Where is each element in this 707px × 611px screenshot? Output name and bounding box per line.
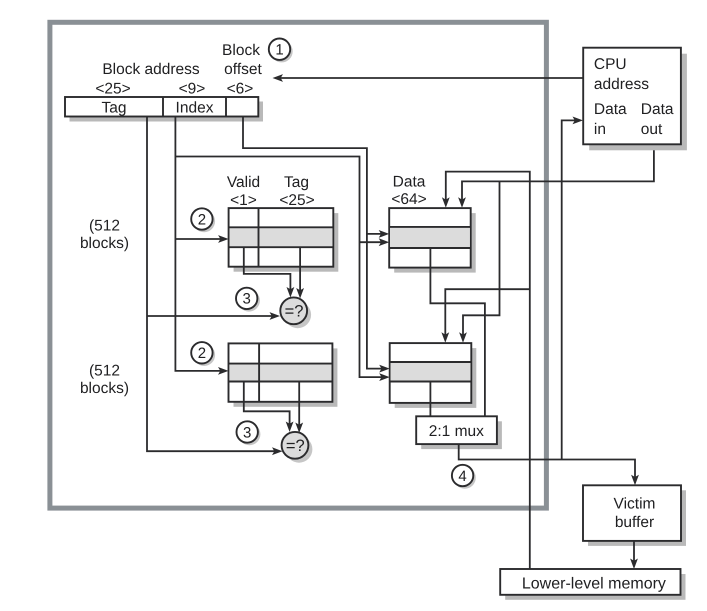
step circle 3 (set 2) [237, 421, 261, 445]
outer cache frame [50, 22, 547, 508]
step circle 2 (set 2) [191, 342, 215, 366]
wire: Tag branch to comparator 1 [147, 312, 280, 320]
svg-text:4: 4 [458, 468, 466, 485]
wire: tag entry to comparator 2 [295, 382, 303, 434]
wire: Tag field down, to comparator 2 [147, 117, 283, 456]
svg-text:blocks): blocks) [80, 235, 129, 252]
wire: data-out branch into data array 2 [459, 181, 499, 342]
wire: data array 2 output to mux [429, 382, 431, 417]
svg-text:<64>: <64> [391, 191, 426, 208]
wire: data-in line from mux output up to CPU [562, 117, 583, 460]
wire: Index field down, arrow into tag array 2 [175, 117, 228, 375]
svg-text:Index: Index [176, 100, 214, 117]
svg-text:=?: =? [286, 437, 305, 455]
svg-text:2: 2 [198, 345, 206, 362]
svg-text:CPU: CPU [594, 56, 627, 73]
wire: Index branch arrow into tag array 1 [175, 235, 228, 243]
data array set 1 [389, 208, 476, 273]
svg-text:<6>: <6> [227, 81, 254, 98]
label: Block offset [222, 42, 262, 78]
svg-text:<25>: <25> [279, 192, 314, 209]
step circle 3 (set 1) [236, 288, 260, 312]
data array set 2 [390, 343, 477, 408]
svg-text:=?: =? [285, 303, 304, 321]
wire: index line to data arrays [175, 157, 389, 382]
svg-text:blocks): blocks) [80, 380, 129, 397]
svg-text:Lower-level memory: Lower-level memory [522, 576, 666, 593]
wire: CPU address to cache (arrow left at block offset) [273, 74, 584, 82]
wire: victim buffer to lower-level memory [630, 541, 638, 569]
wire: lower-level branch arrow into data array 2 [441, 289, 529, 343]
svg-text:<1>: <1> [230, 192, 257, 209]
wire: offset branch arrow into data array 1 [367, 230, 389, 238]
wire: block offset line to data arrays [243, 117, 390, 373]
wire: index branch arrow into data array 1 [360, 238, 390, 246]
label: (512 blocks) set 1 [80, 218, 129, 253]
svg-text:Block address: Block address [102, 61, 200, 78]
svg-text:offset: offset [224, 61, 262, 78]
wire: valid bit to comparator 2 [244, 382, 294, 433]
svg-text:<25>: <25> [95, 81, 130, 98]
wire: mux output to victim buffer [459, 444, 639, 485]
comparator =? (set 1) [280, 297, 311, 328]
wire: tag entry to comparator 1 [296, 247, 304, 298]
svg-text:Tag: Tag [284, 174, 309, 191]
svg-text:Victim: Victim [614, 496, 656, 513]
svg-text:Data: Data [393, 174, 426, 191]
svg-text:address: address [594, 76, 649, 93]
wire: lower-level memory line, arrow into data array 1 [442, 172, 530, 569]
svg-text:Data: Data [641, 101, 674, 118]
svg-text:Block: Block [222, 42, 260, 59]
wire: valid bit to comparator 1 [244, 247, 294, 297]
step circle 4 [452, 465, 476, 489]
2:1 mux box [416, 416, 502, 449]
label: Data / <64> (array 1) [391, 174, 426, 209]
svg-text:out: out [641, 121, 663, 138]
label: (512 blocks) set 2 [80, 363, 129, 398]
svg-text:3: 3 [243, 291, 251, 308]
svg-text:2:1 mux: 2:1 mux [429, 423, 484, 440]
svg-text:in: in [594, 121, 606, 138]
step circle 1 [269, 39, 293, 63]
lower-level memory box [500, 569, 685, 600]
svg-text:(512: (512 [89, 363, 120, 380]
valid/tag array set 1 [229, 208, 339, 272]
comparator =? (set 2) [282, 432, 313, 463]
valid/tag array set 2 [229, 343, 338, 406]
wire: data array 1 output to mux right input [430, 248, 485, 416]
svg-text:1: 1 [275, 42, 283, 59]
wire: CPU data out down and into data array 1 [458, 144, 654, 208]
svg-text:buffer: buffer [615, 514, 654, 531]
address register box (Tag | Index | offset) [65, 97, 263, 122]
svg-text:Data: Data [594, 101, 627, 118]
svg-text:Tag: Tag [102, 100, 127, 117]
svg-text:<9>: <9> [179, 81, 206, 98]
svg-text:Valid: Valid [227, 174, 260, 191]
svg-text:2: 2 [198, 211, 206, 228]
step circle 2 (set 1) [191, 208, 215, 232]
victim buffer box [583, 485, 686, 546]
svg-text:(512: (512 [89, 218, 120, 235]
svg-text:3: 3 [243, 424, 251, 441]
CPU box [583, 48, 687, 151]
